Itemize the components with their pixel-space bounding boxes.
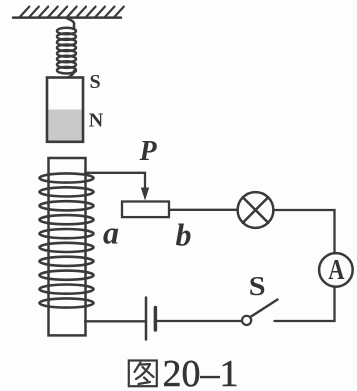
ceiling bbox=[13, 7, 124, 18]
coil core tube bbox=[49, 158, 86, 335]
wire lamp to ammeter bbox=[273, 210, 334, 254]
wire coil-top to rheostat corner bbox=[85, 173, 145, 189]
svg-text:20–1: 20–1 bbox=[163, 353, 239, 391]
svg-text:N: N bbox=[89, 110, 104, 132]
wire coil-bottom to battery bbox=[85, 320, 145, 322]
svg-text:P: P bbox=[139, 136, 158, 167]
slider arrow bbox=[141, 188, 149, 201]
svg-text:A: A bbox=[328, 255, 345, 286]
ammeter bbox=[319, 253, 353, 287]
coil L1 windings bbox=[40, 173, 94, 307]
svg-text:S: S bbox=[249, 271, 266, 301]
rheostat R bbox=[122, 202, 169, 218]
switch S blade bbox=[250, 300, 277, 318]
magnet body bbox=[47, 78, 83, 142]
label S (switch) bbox=[249, 271, 266, 301]
battery cell bbox=[146, 298, 155, 340]
wire battery to switch bbox=[155, 320, 241, 322]
spring bbox=[57, 18, 76, 78]
wire ammeter to bottom corner bbox=[275, 287, 335, 322]
svg-text:a: a bbox=[103, 214, 119, 250]
svg-text:b: b bbox=[176, 216, 192, 252]
lamp bbox=[238, 192, 274, 228]
switch pivot bbox=[242, 316, 251, 325]
caption hanzi TU (figure) bbox=[129, 361, 157, 387]
wire rheostat to lamp bbox=[169, 209, 238, 211]
svg-text:S: S bbox=[90, 71, 101, 93]
